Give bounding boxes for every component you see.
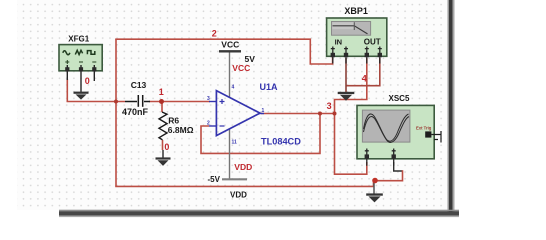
XBP1 pin OUT+ — [365, 47, 369, 64]
pin number 11 — [232, 140, 238, 146]
wire feedback loop output to inverting input — [201, 113, 320, 154]
svg-text:4: 4 — [362, 73, 367, 83]
XFG1 triangle glyph — [75, 50, 82, 54]
VDD power symbol bar — [222, 178, 247, 180]
svg-text:2: 2 — [207, 121, 210, 127]
junction node 2 at riser — [114, 100, 118, 104]
wire XBP1 IN- to ground — [345, 58, 347, 92]
net label 1 — [159, 87, 164, 97]
pin number 1 — [262, 108, 265, 114]
net label 4 — [362, 73, 367, 83]
svg-text:VDD: VDD — [230, 190, 247, 199]
op-amp non-inverting input lead — [209, 101, 217, 103]
C13 value 470nF — [122, 107, 149, 117]
wire R6 top lead — [161, 102, 163, 113]
XBP1 screen cursor line — [353, 22, 355, 30]
R6 label — [168, 116, 179, 126]
XSC5 pin pads — [365, 154, 396, 158]
svg-text:0: 0 — [164, 142, 169, 152]
svg-text:4: 4 — [232, 85, 235, 91]
VCC value 5V — [245, 54, 256, 64]
XBP1 pin IN+ — [331, 47, 335, 64]
XBP1 pin IN- — [344, 47, 348, 64]
sheet bottom border bar — [59, 210, 459, 217]
XFG1 minus terminal mark — [92, 61, 96, 63]
junction node 3 cross — [333, 112, 337, 116]
XSC5 label — [389, 94, 410, 103]
op-amp output lead — [260, 113, 265, 115]
svg-text:VCC: VCC — [221, 40, 239, 50]
ground under XFG1 — [74, 92, 89, 100]
wire C13 to op-amp non-inverting input — [149, 101, 210, 103]
svg-text:2: 2 — [212, 28, 217, 38]
bode plotter XBP1 body — [327, 18, 387, 56]
ground under XBP1 IN- — [338, 92, 355, 101]
XSC5 sine trace B — [364, 117, 410, 143]
junction feedback at output — [318, 112, 322, 116]
C13 label — [131, 80, 147, 90]
function generator XFG1 body — [59, 45, 102, 71]
XFG1 pin pads — [65, 67, 96, 71]
wire input horizontal to C13 — [67, 101, 126, 103]
XSC5 screen — [362, 110, 410, 142]
net label 3 — [327, 101, 332, 111]
VDD power symbol label — [230, 190, 247, 199]
XSC5 pin B — [392, 149, 396, 166]
XBP1 response curve — [333, 26, 368, 34]
op-amp VDD power pin wire — [229, 129, 231, 179]
pin number 4 — [232, 85, 235, 91]
XFG1 pin - — [93, 65, 95, 81]
TL084CD label — [261, 136, 301, 146]
XFG1 pin + — [66, 65, 68, 80]
XBP1 pin pads — [331, 53, 382, 57]
XBP1 label — [344, 6, 368, 16]
op-amp U1A triangle — [216, 91, 260, 136]
resistor R6 zigzag — [159, 112, 167, 140]
svg-text:470nF: 470nF — [122, 107, 149, 117]
sheet background with dot grid — [17, 0, 449, 210]
svg-text:XBP1: XBP1 — [344, 6, 368, 16]
svg-text:0: 0 — [85, 76, 90, 86]
svg-text:XSC5: XSC5 — [389, 94, 410, 103]
wire scope channel B red segment — [375, 170, 403, 180]
op-amp inverting input lead — [209, 125, 217, 127]
svg-text:IN: IN — [335, 38, 343, 47]
XFG1 sine glyph — [63, 51, 70, 55]
wire XBP1 OUT+ down to node 3 and scope channel A — [335, 58, 367, 174]
XSC5 sine trace A — [364, 114, 409, 141]
wire scope channel B to ground junction — [394, 162, 403, 171]
svg-text:TL084CD: TL084CD — [261, 136, 301, 146]
op-amp VCC power pin wire — [229, 52, 231, 98]
wire XBP1 OUT- to ground rail — [346, 58, 380, 86]
svg-text:6.8MΩ: 6.8MΩ — [168, 125, 194, 135]
sheet right border — [448, 0, 455, 215]
net label 0 at XFG1 ground — [85, 76, 90, 86]
junction node 1 at R6 top — [159, 99, 164, 104]
svg-text:1: 1 — [159, 87, 164, 97]
XBP1 OUT label — [364, 38, 381, 47]
XFG1 square glyph — [87, 51, 94, 55]
svg-text:3: 3 — [207, 96, 210, 102]
wire R6 bottom lead to ground — [162, 140, 164, 150]
VCC power symbol label — [221, 40, 239, 50]
svg-text:3: 3 — [327, 101, 332, 111]
junction scope ground — [372, 178, 378, 184]
svg-text:U1A: U1A — [260, 82, 279, 92]
svg-text:Ext Trig: Ext Trig — [416, 126, 432, 131]
net label VCC red — [232, 63, 250, 73]
pin number 3 — [207, 96, 210, 102]
svg-text:-5V: -5V — [208, 175, 221, 184]
svg-text:C13: C13 — [131, 80, 147, 90]
XBP1 screen — [332, 22, 371, 36]
op-amp plus sign — [220, 99, 225, 104]
R6 value 6.8MOhm — [168, 125, 194, 135]
net label VDD red — [234, 162, 252, 172]
VDD value -5V — [208, 175, 221, 184]
svg-text:XFG1: XFG1 — [68, 34, 89, 43]
wire node 2 vertical riser — [115, 39, 117, 186]
net label 2 — [212, 28, 217, 38]
XFG1 plus terminal mark — [65, 60, 69, 64]
XBP1 IN label — [335, 38, 343, 47]
pin number 2 — [207, 121, 210, 127]
net label 0 at R6 ground — [164, 142, 169, 152]
wire XFG1 plus pin to input node — [66, 79, 68, 102]
XSC5 ext trig pin — [425, 131, 431, 137]
oscilloscope XSC5 body — [357, 105, 434, 158]
ground under XSC5 — [366, 193, 383, 202]
wire node 2 top run to XBP1 IN — [115, 39, 332, 64]
svg-text:VDD: VDD — [234, 162, 252, 172]
XFG1 common terminal mark — [79, 61, 83, 63]
XFG1 pin common — [80, 65, 82, 92]
XSC5 Ext Trig label — [416, 126, 432, 131]
svg-text:1: 1 — [262, 108, 265, 114]
wire bottom ground bus — [115, 181, 373, 187]
XBP1 pin OUT- — [378, 47, 382, 64]
svg-text:11: 11 — [232, 140, 238, 146]
svg-text:OUT: OUT — [364, 38, 381, 47]
op-amp minus sign — [220, 125, 225, 127]
capacitor C13 — [125, 95, 150, 107]
XSC5 pin A — [365, 149, 369, 166]
svg-text:VCC: VCC — [232, 63, 250, 73]
wire op-amp output node 3 — [261, 113, 335, 115]
wire scope ground junction down to ground symbol — [373, 180, 375, 194]
ground under R6 — [156, 157, 171, 166]
R6 ground stem — [162, 150, 164, 158]
XFG1 label — [68, 34, 89, 43]
VCC power symbol bar — [219, 50, 241, 52]
U1A label — [260, 82, 279, 92]
